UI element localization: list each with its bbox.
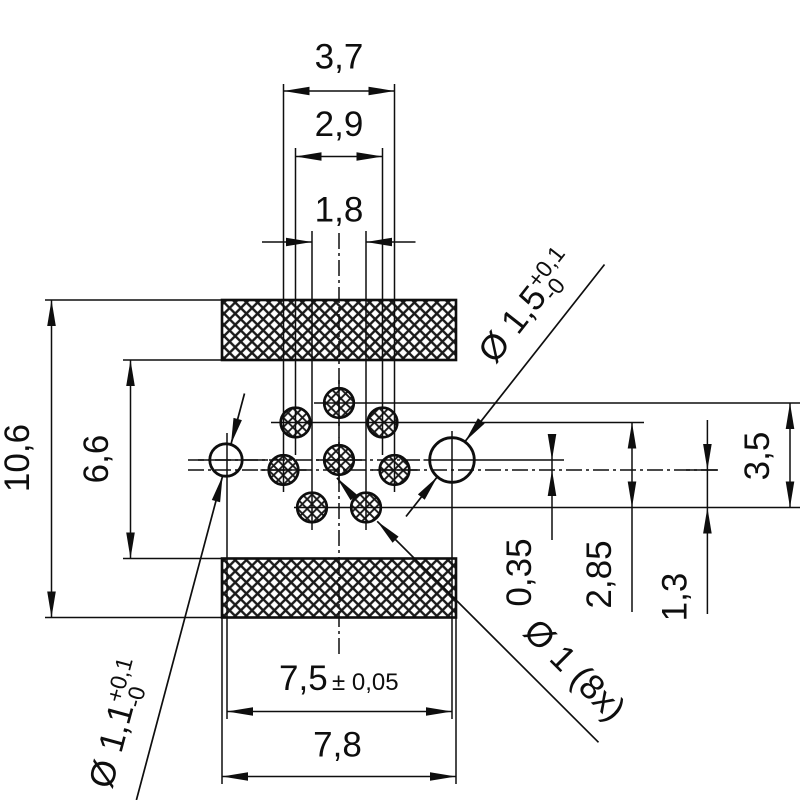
leader line d1 8x upper segment — [337, 478, 356, 500]
hole B (top, d1) — [324, 388, 354, 418]
leader line d1 8x lower segment — [377, 521, 598, 742]
center mark hole E horizontal — [316, 459, 362, 461]
leader line d1.1 lower — [136, 476, 222, 800]
svg-text:3,5: 3,5 — [738, 432, 777, 481]
svg-text:7,8: 7,8 — [313, 726, 362, 765]
leader line d1.5 upper — [465, 265, 604, 442]
arrowhead 3,7 right — [369, 87, 395, 96]
label d1,5 +0,1/-0 — [468, 241, 585, 373]
center mark hole E vertical — [338, 438, 340, 484]
arrowhead 3,5 top — [786, 403, 795, 429]
arrowhead 1,8 left (outside) — [286, 238, 312, 247]
dimension line 1,8 left part — [262, 241, 312, 243]
extension line hole D (3,7) — [283, 84, 285, 492]
hole A (upper-left, d1) — [281, 408, 311, 438]
extension line hole A (2,9) — [295, 148, 297, 455]
arrowhead at d1.1 upper edge — [231, 418, 242, 444]
arrowhead 1,3 top (outside) — [703, 444, 712, 470]
arrowhead 2,9 left — [296, 152, 322, 161]
leader line d1.1 upper — [231, 394, 245, 445]
arrowhead 7,8 left — [222, 772, 248, 781]
dimension line 6,6 — [130, 360, 132, 559]
dimension line 2,85 — [631, 423, 633, 612]
arrowhead 1,3 bottom (outside) — [703, 508, 712, 534]
hole G (lower-left, d1) — [297, 493, 327, 523]
dimension line 1,3 — [706, 420, 708, 614]
arrowhead at d1.5 lower edge — [418, 477, 438, 500]
center mark hole F — [372, 469, 418, 471]
arrowhead at d1.1 lower edge — [212, 476, 223, 502]
svg-text:2,85: 2,85 — [580, 540, 619, 608]
arrowhead 0,35 top (outside) — [548, 434, 557, 460]
arrowhead 3,5 bottom — [786, 482, 795, 508]
extension line hole G (1,8) — [311, 231, 313, 530]
svg-text:10,6: 10,6 — [0, 424, 37, 492]
extension line hole B row — [314, 402, 800, 404]
arrowhead 0,35 bottom (outside) — [548, 470, 557, 496]
dimension line 10,6 — [51, 300, 53, 618]
extension line hole C (2,9) — [382, 148, 384, 455]
svg-text:Ø 1,1: Ø 1,1 — [82, 699, 142, 792]
svg-text:7,5: 7,5 — [279, 659, 328, 698]
svg-text:Ø 1 (8x): Ø 1 (8x) — [516, 612, 633, 729]
arrowhead 6,6 bottom — [126, 533, 135, 559]
centerline solid tail at 1,3 dim — [686, 469, 718, 471]
label d1,1 +0,1/-0 — [79, 654, 157, 793]
centerline horizontal lower (through D, F) — [188, 469, 718, 471]
extension line hole F (3,7) — [394, 84, 396, 492]
center mark / extension hole d1.5 vertical — [451, 431, 453, 719]
bottom flange (cross-hatched section) — [222, 559, 456, 618]
arrowhead at d1.5 upper edge — [465, 418, 485, 441]
svg-text:2,9: 2,9 — [315, 105, 364, 144]
hole H (lower-right, d1) — [351, 493, 381, 523]
centerline horizontal upper (through d1.1, E, d1.5) — [188, 459, 420, 461]
arrowhead 2,9 right — [357, 152, 383, 161]
arrowhead 10,6 bottom — [47, 592, 56, 618]
arrowhead 3,7 left — [284, 87, 310, 96]
top flange (cross-hatched section) — [222, 300, 456, 360]
dimension line 7,5 — [227, 711, 452, 713]
svg-text:0,35: 0,35 — [500, 538, 539, 606]
leader line d1.5 lower — [406, 477, 437, 517]
dimension line 1,8 right part — [366, 241, 416, 243]
extension line top flange upper edge — [45, 299, 222, 301]
svg-text:1,8: 1,8 — [315, 191, 364, 230]
extension line bottom flange upper edge — [123, 558, 222, 560]
hole D (mid-left, d1) — [269, 455, 299, 485]
label d1 (8x) — [516, 612, 633, 729]
extension line top flange lower edge — [123, 359, 222, 361]
arrowhead 6,6 top — [126, 360, 135, 386]
arrowhead 1,8 right (outside) — [366, 238, 392, 247]
hole d1.5 (large, right) — [430, 438, 475, 483]
arrowhead 7,5 right — [426, 707, 452, 716]
arrowhead 2,85 bottom — [628, 482, 637, 508]
svg-text:3,7: 3,7 — [315, 38, 364, 77]
hole C (upper-right, d1) — [368, 408, 398, 438]
extension line 7,8 left — [221, 618, 223, 785]
dimension line 0,35 — [551, 434, 553, 540]
arrowhead 10,6 top — [47, 300, 56, 326]
extension line 7,8 right — [455, 618, 457, 785]
center mark / extension hole d1.1 vertical — [226, 433, 228, 719]
extension line holes G H row — [294, 507, 800, 509]
arrowhead 7,8 right — [430, 772, 456, 781]
arrowhead at hole H edge — [377, 521, 398, 542]
svg-text:6,6: 6,6 — [77, 435, 116, 484]
extension line hole H (1,8) — [365, 231, 367, 530]
dimension line 3,7 — [284, 90, 395, 92]
arrowhead 7,5 left — [227, 707, 253, 716]
dimension line 7,8 — [222, 776, 456, 778]
extension line holes A C row — [271, 422, 644, 424]
arrowhead at hole E edge — [337, 478, 357, 501]
centerline vertical — [338, 233, 340, 655]
dimension line 3,5 — [789, 403, 791, 508]
svg-text:1,3: 1,3 — [656, 573, 695, 622]
arrowhead 2,85 top — [628, 423, 637, 449]
dimension line 2,9 — [296, 156, 383, 158]
extension line bottom flange lower edge — [45, 617, 222, 619]
hole d1.1 (left) — [210, 444, 242, 476]
center mark hole D — [261, 469, 307, 471]
hole E (center, d1) — [324, 445, 354, 475]
svg-text:± 0,05: ± 0,05 — [332, 669, 399, 696]
center mark hole d1.5 horizontal — [424, 459, 565, 461]
center mark hole d1.1 horizontal — [198, 459, 268, 461]
center mark hole B vertical — [338, 380, 340, 426]
hole F (mid-right, d1) — [380, 455, 410, 485]
